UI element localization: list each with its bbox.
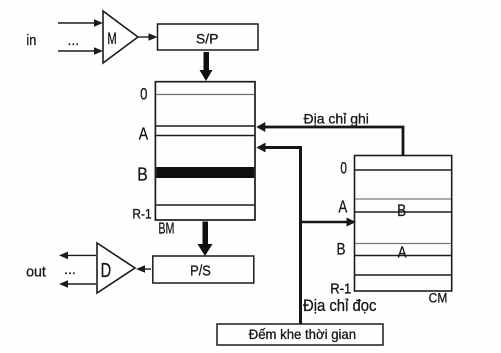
CM label R-1 <box>330 281 351 297</box>
svg-text:...: ... <box>64 261 76 277</box>
control memory CM <box>355 156 452 292</box>
wire M to S/P <box>138 33 158 41</box>
label out <box>26 264 46 280</box>
demultiplexer D <box>97 243 135 293</box>
CM row line 5 <box>355 255 451 257</box>
label Dia chi doc <box>303 297 377 315</box>
BM label R-1 <box>132 205 151 221</box>
thick arrow S/P to BM <box>200 52 213 81</box>
BM row line 4 <box>156 204 254 206</box>
BM label 0 <box>140 85 147 104</box>
read address wire vertical <box>256 143 300 324</box>
CM label A <box>338 198 347 217</box>
block P/S <box>153 256 254 283</box>
CM cell value A <box>398 245 407 262</box>
BM label A <box>139 125 149 144</box>
wire P/S to D <box>136 265 151 273</box>
svg-text:BM: BM <box>158 220 174 237</box>
svg-text:0: 0 <box>340 160 347 178</box>
svg-text:B: B <box>397 202 406 221</box>
CM row line 2 <box>355 198 451 200</box>
svg-text:Đếm khe thời gian: Đếm khe thời gian <box>249 327 356 342</box>
read address branch to CM <box>301 218 356 227</box>
write address wire (Dia chi ghi) <box>256 122 403 155</box>
BM black cell B <box>156 167 254 178</box>
BM row line 2 <box>156 125 254 127</box>
BM label B <box>137 163 147 185</box>
svg-text:B: B <box>137 163 147 185</box>
thick arrow BM to P/S <box>198 222 213 257</box>
label BM <box>158 220 174 237</box>
CM row line 6 <box>355 274 451 276</box>
label CM <box>429 290 448 306</box>
svg-text:A: A <box>398 245 407 262</box>
CM row line 3 <box>355 211 451 213</box>
buffer memory BM <box>155 82 255 220</box>
svg-text:CM: CM <box>429 290 448 306</box>
svg-text:D: D <box>101 259 112 282</box>
wire input line 2 <box>58 47 103 55</box>
time slot counter box <box>217 324 383 345</box>
BM row line 3 <box>156 135 254 137</box>
wire output line 1 <box>59 252 96 260</box>
dots between inputs <box>67 32 79 48</box>
svg-text:R-1: R-1 <box>132 205 151 221</box>
CM cell value B <box>397 202 406 221</box>
svg-text:B: B <box>336 240 345 259</box>
label Dia chi ghi <box>304 110 369 126</box>
dots between outputs <box>64 261 76 277</box>
wire input line 1 <box>58 19 103 27</box>
svg-text:Địa chỉ đọc: Địa chỉ đọc <box>303 297 377 315</box>
label in <box>26 32 36 48</box>
CM row line 4 <box>355 243 451 245</box>
svg-text:in: in <box>26 32 36 48</box>
block S/P <box>158 24 259 50</box>
svg-text:S/P: S/P <box>196 31 219 47</box>
wire output line 2 <box>59 280 96 288</box>
svg-text:R-1: R-1 <box>330 281 351 297</box>
svg-text:Địa chỉ ghi: Địa chỉ ghi <box>304 110 369 126</box>
svg-text:A: A <box>338 198 347 217</box>
svg-text:out: out <box>26 264 46 280</box>
CM label 0 <box>340 160 347 178</box>
svg-text:M: M <box>107 30 116 49</box>
CM label B <box>336 240 345 259</box>
multiplexer M <box>103 11 138 63</box>
CM row line 1 <box>355 169 451 171</box>
svg-text:...: ... <box>67 32 79 48</box>
svg-text:0: 0 <box>140 85 147 104</box>
svg-text:P/S: P/S <box>190 262 211 279</box>
BM row line 1 <box>156 94 254 96</box>
svg-text:A: A <box>139 125 149 144</box>
